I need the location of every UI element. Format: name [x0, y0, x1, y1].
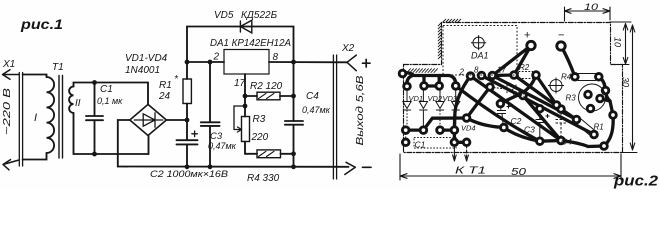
svg-text:DA1 КР142ЕН12А: DA1 КР142ЕН12А: [210, 38, 291, 49]
plus sign: [363, 59, 371, 67]
svg-text:0,47мк: 0,47мк: [302, 105, 331, 115]
pads C2: [497, 100, 504, 107]
resistor R2: [257, 92, 280, 100]
input rail node A: [185, 60, 190, 65]
svg-text:X2: X2: [341, 43, 355, 54]
svg-text:X1: X1: [2, 59, 15, 70]
X1 pin arrow bottom: [3, 160, 19, 170]
trace fan 4: [514, 75, 561, 109]
svg-text:К Т1: К Т1: [455, 166, 486, 177]
dimension 30: [622, 25, 637, 153]
svg-text:10: 10: [613, 37, 623, 47]
C3 silk: [536, 112, 545, 138]
dimension 50: [400, 154, 621, 180]
svg-text:VD5: VD5: [214, 10, 234, 21]
connector X1 body (double line): [19, 73, 22, 167]
wire X1 top to primary: [23, 75, 47, 78]
node bridge plus: [185, 118, 190, 123]
transformer T1 primary winding I: [47, 77, 55, 153]
svg-text:30: 30: [621, 77, 631, 87]
svg-text:C2: C2: [511, 116, 522, 126]
trace mid to R1: [561, 109, 577, 120]
trace pin2 to bottom pad: [454, 76, 470, 130]
C1 lead dotted: [405, 134, 407, 140]
svg-text:C4: C4: [306, 91, 319, 102]
minus sign: [363, 166, 372, 168]
pad plus: [527, 41, 535, 49]
X1 pin arrow top: [3, 70, 20, 80]
svg-text:10: 10: [584, 2, 598, 12]
svg-text:T1: T1: [52, 62, 64, 73]
svg-text:VD1: VD1: [409, 94, 424, 103]
node C1 bottom: [92, 152, 97, 157]
wire secondary top: [74, 83, 149, 87]
svg-text:220: 220: [251, 132, 269, 143]
wire trace C-D: [440, 128, 454, 131]
svg-text:II: II: [75, 98, 81, 109]
svg-text:R2 120: R2 120: [250, 81, 283, 92]
R2 silk: [519, 72, 533, 79]
trace diode bus to C3 bottom: [456, 86, 540, 141]
dimension 10 right: [610, 22, 631, 65]
svg-text:*: *: [175, 74, 179, 85]
op-amp regulator DA1: [224, 50, 269, 75]
svg-text:R4: R4: [561, 73, 572, 82]
pad VD4: [463, 115, 470, 122]
resistor R4: [257, 150, 281, 158]
trace fan 3: [492, 76, 576, 120]
dimension 10 top: [565, 7, 611, 21]
pads C3: [537, 105, 544, 112]
svg-text:VD1-VD4: VD1-VD4: [125, 53, 168, 64]
rail to DA1 pin 2: [187, 61, 224, 63]
svg-text:R3: R3: [566, 94, 577, 103]
svg-text:R1: R1: [594, 123, 604, 132]
svg-text:2: 2: [213, 52, 220, 63]
trimmer R3: [242, 117, 250, 142]
C4 silk: [556, 113, 567, 138]
trace fan 5: [536, 75, 557, 105]
pads mid: [558, 106, 565, 113]
R4 silk: [578, 74, 596, 81]
wires to T1 with arrows: [453, 145, 457, 161]
trace VD4 to C2 bottom: [467, 118, 504, 128]
svg-text:0,1 мк: 0,1 мк: [97, 96, 123, 106]
svg-text:КД522Б: КД522Б: [241, 10, 278, 21]
node C3 top: [208, 60, 213, 65]
svg-text:VD5: VD5: [512, 90, 527, 99]
svg-text:0,47мк: 0,47мк: [208, 141, 237, 151]
capacitor C4: [285, 121, 303, 167]
VD5 silk: [494, 85, 522, 94]
trace Q1 to VD4: [467, 87, 490, 118]
svg-text:~220 В: ~220 В: [2, 88, 13, 135]
X2 plus pin arrow: [347, 55, 356, 71]
trace plus pad V: [492, 46, 531, 76]
wire right corner to R1/C2 node: [166, 119, 187, 121]
wire top corner to AC: [147, 83, 149, 105]
pad bus start: [399, 70, 406, 77]
svg-text:2: 2: [459, 68, 465, 77]
trace ground bottom chain: [504, 128, 604, 147]
trace right edge: [599, 77, 613, 146]
connector X2 body (double line): [333, 55, 336, 179]
svg-text:VD3: VD3: [443, 94, 458, 103]
svg-text:C3: C3: [524, 125, 535, 135]
svg-text:C1: C1: [100, 84, 113, 95]
pads C1 row: [402, 139, 409, 146]
R1 silk tilted: [577, 119, 594, 135]
bridge inner diode: [134, 113, 163, 127]
svg-text:17: 17: [234, 78, 246, 89]
transformer secondary winding II: [69, 87, 73, 113]
svg-text:I: I: [34, 112, 37, 124]
wire left corner to minus rail: [118, 120, 130, 167]
svg-text:C4: C4: [561, 137, 572, 147]
trace VD5 pad diagonal: [523, 96, 561, 141]
pads diode top row: [404, 83, 411, 90]
pad minus: [557, 42, 565, 50]
wire trace G-H: [454, 141, 466, 144]
wire trace D-G: [453, 130, 456, 142]
svg-text:8: 8: [474, 66, 479, 75]
svg-text:−: −: [558, 30, 564, 42]
capacitor C3: [201, 62, 220, 167]
svg-text:+: +: [524, 30, 530, 42]
board outline: [404, 23, 623, 153]
bridge rectifier diamond: [130, 104, 167, 135]
X2 minus pin arrow: [345, 162, 356, 174]
node C2 ground: [185, 164, 190, 169]
pads R2: [533, 72, 540, 79]
svg-text:50: 50: [511, 167, 527, 178]
svg-text:R3: R3: [253, 114, 266, 125]
DA1 outline dashed: [443, 26, 517, 76]
DA1 mounting hole: [473, 37, 484, 48]
capacitor C2: [177, 140, 198, 166]
diode VD3 symbol: [436, 89, 444, 110]
pads R4: [572, 74, 579, 81]
svg-text:Выход 5,6В: Выход 5,6В: [355, 75, 366, 145]
svg-text:17: 17: [497, 66, 506, 75]
capacitor C1: [86, 83, 103, 155]
node C1 top: [92, 80, 97, 85]
svg-text:VD4: VD4: [461, 124, 476, 133]
trace fan 2: [482, 76, 595, 135]
svg-text:R2: R2: [519, 63, 530, 72]
svg-text:С2 1000мк×16В: С2 1000мк×16В: [150, 169, 229, 180]
trace fan 1: [471, 76, 562, 141]
pads VD5: [487, 84, 494, 91]
trace minus to R4: [561, 46, 575, 77]
diode VD4 symbol: [452, 89, 460, 110]
wire pin 8 to X2 plus: [269, 61, 347, 63]
pads DA1 pins: [467, 73, 474, 80]
svg-text:рис.1: рис.1: [20, 16, 63, 32]
R3 wiper: [234, 106, 245, 132]
diode VD2 symbol: [419, 89, 427, 110]
pads right edge: [602, 87, 609, 94]
diode VD5 branch: [187, 27, 294, 63]
pads R3: [585, 91, 592, 98]
node output top: [291, 60, 296, 65]
svg-text:R4 330: R4 330: [247, 173, 280, 184]
svg-text:24: 24: [158, 91, 171, 102]
minus rail: [118, 166, 349, 168]
C2 silk: [497, 107, 506, 124]
board edge hatching: [407, 19, 461, 72]
svg-text:DA1: DA1: [471, 51, 489, 61]
diode VD5: [240, 20, 251, 33]
trace bottom-left bus: [406, 118, 467, 130]
R3 circle: [579, 84, 606, 111]
pads R1: [573, 116, 580, 123]
svg-text:VD2: VD2: [428, 94, 443, 103]
output vertical wire: [293, 62, 295, 121]
mounting hole 2: [550, 80, 562, 92]
resistor R1: [183, 79, 191, 104]
svg-text:R1: R1: [159, 80, 172, 91]
svg-text:С1: С1: [415, 140, 426, 150]
trace R2 to C2 top: [500, 75, 536, 104]
diode VD1 symbol: [403, 90, 411, 111]
wire primary bottom to X1: [23, 153, 47, 160]
transformer core: [59, 76, 63, 159]
C1 outline dotted: [414, 138, 456, 149]
wire secondary bottom: [74, 113, 149, 154]
pin 17 wire: [244, 74, 246, 106]
pads diode bottom row: [402, 127, 409, 134]
trace AC bus top-left: [403, 73, 456, 84]
svg-text:1N4001: 1N4001: [125, 65, 160, 76]
